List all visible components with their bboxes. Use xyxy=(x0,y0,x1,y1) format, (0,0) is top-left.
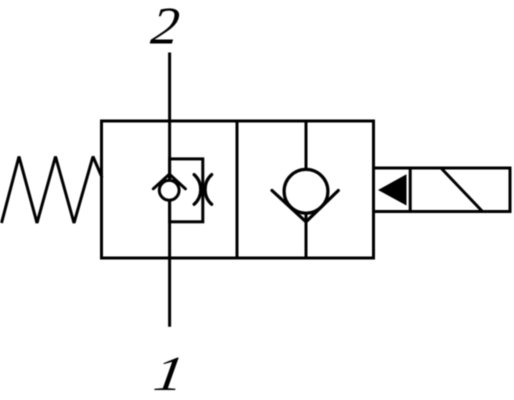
solenoid diagonal line xyxy=(441,168,482,211)
check valve seat (left) xyxy=(153,174,185,189)
throttle restrictor arcs xyxy=(194,175,201,205)
check valve seat (right) xyxy=(272,191,338,222)
spring xyxy=(2,157,103,224)
bypass loop wire xyxy=(170,159,203,222)
valve body rectangle xyxy=(102,121,374,258)
solenoid box xyxy=(374,168,511,212)
solenoid box divider xyxy=(409,168,412,212)
check valve ball (left) xyxy=(159,180,179,200)
wire port 2 to port 1 (main flow line) xyxy=(168,53,171,327)
actuator arrow triangle xyxy=(378,174,407,205)
body divider line xyxy=(236,121,239,258)
wire right compartment xyxy=(305,121,308,258)
check valve ball (right) xyxy=(284,169,328,213)
